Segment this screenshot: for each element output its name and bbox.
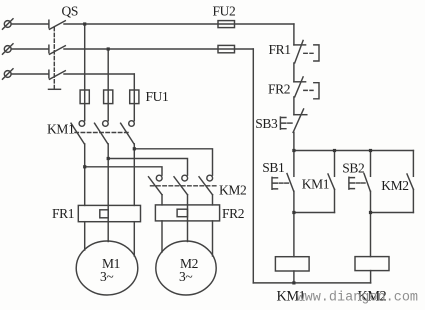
svg-text:FR1: FR1 (52, 206, 74, 221)
svg-text:FR2: FR2 (222, 206, 244, 221)
svg-text:SB2: SB2 (342, 160, 364, 175)
svg-text:3~: 3~ (100, 269, 113, 284)
svg-text:SB1: SB1 (262, 160, 284, 175)
svg-text:FU1: FU1 (146, 89, 169, 104)
svg-text:KM2: KM2 (381, 178, 408, 193)
svg-text:FU2: FU2 (213, 3, 236, 18)
svg-text:KM1: KM1 (302, 177, 329, 192)
svg-text:KM1: KM1 (47, 122, 74, 137)
svg-text:QS: QS (62, 3, 78, 18)
svg-text:www.diangon.com: www.diangon.com (297, 291, 419, 306)
svg-text:FR2: FR2 (268, 82, 290, 97)
svg-text:SB3: SB3 (255, 116, 278, 131)
svg-text:FR1: FR1 (269, 42, 291, 57)
svg-text:3~: 3~ (179, 269, 192, 284)
svg-text:KM2: KM2 (219, 183, 246, 198)
